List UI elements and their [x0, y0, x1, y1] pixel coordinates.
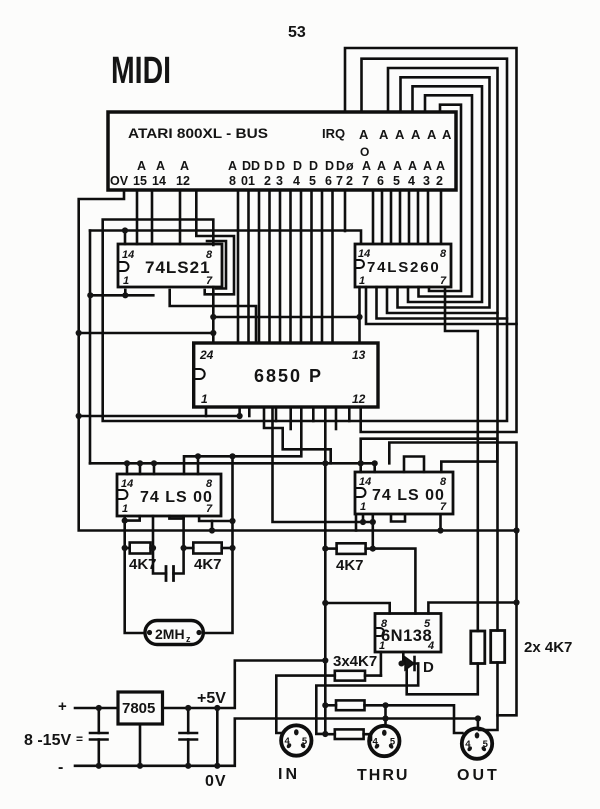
svg-text:12: 12 [176, 174, 190, 188]
svg-text:A: A [442, 127, 452, 142]
svg-text:4: 4 [373, 737, 379, 748]
svg-text:OUT: OUT [457, 767, 500, 784]
wire 74LS260 pin1 down to 6850 pin13 [358, 287, 361, 343]
wire loop A0 [362, 59, 508, 319]
DIN connector IN [281, 725, 311, 755]
svg-text:4: 4 [293, 174, 300, 188]
wire 6N138 pin8 left to serial line [325, 603, 389, 614]
svg-text:4: 4 [465, 739, 471, 750]
svg-text:6: 6 [325, 174, 332, 188]
wire: right vertical x507 continuation to left rail [103, 220, 507, 422]
bus bottom labels [110, 159, 445, 188]
junction J45 at (217.3,765.8) [214, 763, 220, 769]
svg-text:A: A [427, 127, 437, 142]
svg-text:8 -15V: 8 -15V [24, 732, 71, 749]
junction J39 at (98.8,708) [96, 705, 102, 711]
svg-text:74LS21: 74LS21 [145, 258, 211, 277]
svg-text:MIDI: MIDI [111, 50, 171, 92]
svg-text:14: 14 [121, 478, 133, 490]
junction J3 at (125.3,295.3) [122, 292, 128, 298]
junction J43 at (140,765.8) [137, 763, 143, 769]
junction J13 at (198,456.3) [195, 453, 201, 459]
wire loop A (4th) [398, 77, 490, 307]
resistor 4K7 (right LS00) [325, 543, 373, 574]
IC 74LS00 left [117, 474, 221, 516]
svg-text:4K7: 4K7 [194, 556, 222, 573]
svg-text:14: 14 [152, 174, 166, 188]
svg-text:A: A [180, 159, 189, 173]
wire 74LS260 pin7 down right side to 2x4K7 left [445, 287, 478, 631]
wire loop A (3rd) [387, 68, 498, 313]
junction J19 at (516.5,530.5) [513, 527, 519, 533]
wire 0V rail [75, 719, 478, 766]
junction J36 at (385.5,705.3) [382, 702, 388, 708]
junction J21 at (212,530.5) [209, 527, 215, 533]
wire LS00-right pin14 wrap to pin8 [361, 439, 498, 472]
junction J11 at (140,463.3) [137, 460, 143, 466]
wire loop A (5th) [408, 86, 482, 302]
wire D4 to 6850 [289, 190, 292, 343]
wire inner bracket right of 74LS21 [207, 241, 226, 289]
svg-text:2: 2 [346, 174, 353, 188]
svg-text:7805: 7805 [122, 700, 155, 717]
junction J40 at (188.2,708) [185, 705, 191, 711]
wire to OUT pin4 [386, 705, 463, 733]
wire phi2 clock to 6850 [331, 190, 334, 343]
junction J24 at (153,548) [150, 545, 156, 551]
wire 74LS21 bottom pin to 6850 top [170, 290, 256, 343]
DIN connector THRU [369, 726, 399, 756]
svg-text:A: A [411, 127, 421, 142]
svg-text:+5V: +5V [197, 690, 226, 707]
wire A4 to 74LS260 [399, 190, 402, 244]
regulator 7805 [118, 692, 163, 724]
wire 6850 bottom stub d [312, 407, 315, 421]
wire THRU top stub [384, 705, 387, 726]
junction J28 at (232.5,456.3) [229, 453, 235, 459]
svg-text:D: D [276, 159, 285, 173]
wire A14 to 74LS21 [151, 190, 154, 244]
junction J1 at (125,230.5) [122, 227, 128, 233]
junction J12 at (154,463.3) [151, 460, 157, 466]
svg-text:1: 1 [360, 501, 366, 513]
svg-text:4: 4 [285, 736, 291, 747]
wire horizontal y230 to 74LS260 pin14 [90, 231, 361, 244]
resistor 3x4K7 middle [325, 700, 385, 710]
wire LS00-left top stub [197, 456, 200, 474]
resistor 3x4K7 bottom [325, 729, 371, 740]
junction J18 at (372.8,522) [370, 519, 376, 525]
IC 6850P [194, 343, 378, 407]
svg-text:1: 1 [122, 503, 128, 515]
wire address stub to 74LS260 [427, 190, 430, 244]
junction J20 at (440.5,530.5) [437, 527, 443, 533]
wire plus rail [75, 707, 118, 710]
junction J17 at (363,522) [360, 519, 366, 525]
svg-text:A: A [362, 159, 371, 173]
svg-text:D: D [293, 159, 302, 173]
junction J22 at (124.7,520.6) [122, 518, 128, 524]
svg-text:74 LS 00: 74 LS 00 [372, 487, 445, 504]
wire 7805 gnd [139, 724, 142, 766]
junction J15 at (360.7,463.3) [358, 460, 364, 466]
svg-text:A: A [393, 159, 402, 173]
svg-text:A: A [156, 159, 165, 173]
junction J23 at (124.7,548) [122, 545, 128, 551]
svg-text:5: 5 [302, 736, 308, 747]
wire A6 to 74LS260 [381, 190, 384, 244]
svg-text:2x 4K7: 2x 4K7 [524, 639, 572, 656]
wire y295 row [90, 294, 153, 297]
svg-text:6: 6 [377, 174, 384, 188]
wire pin8 stub to 74LS260 [440, 190, 443, 244]
junction J32 at (516.5,602.5) [513, 599, 519, 605]
svg-text:5: 5 [309, 174, 316, 188]
capacitor output [187, 708, 190, 733]
svg-text:1: 1 [359, 275, 365, 287]
resistor 4K7 left [125, 516, 157, 633]
wire LS00-right middle bottom stubs [391, 515, 405, 522]
svg-text:A: A [137, 159, 146, 173]
wire bus pin to outer bracket around 74LS21 [196, 190, 234, 294]
junction J34 at (325.3,705.3) [322, 702, 328, 708]
svg-text:7: 7 [440, 275, 447, 287]
junction J33 at (325.3,660.5) [322, 657, 328, 663]
svg-text:15: 15 [133, 174, 147, 188]
wire A12 to 74LS21 [179, 190, 182, 244]
wire 6850 stub to y456 row [184, 407, 301, 474]
ATARI 800XL BUS box [108, 112, 456, 190]
capacitor between resistors [166, 567, 174, 581]
wire LS00-left pin7 to x232 [199, 516, 232, 521]
svg-text:12: 12 [352, 392, 366, 406]
svg-text:THRU: THRU [357, 767, 409, 784]
wire D2 to 6850 [268, 190, 271, 343]
svg-text:2: 2 [264, 174, 271, 188]
svg-text:1: 1 [123, 275, 129, 287]
wire A15 to 74LS21 [136, 190, 139, 244]
wire LS00-left top stub 3 [153, 463, 156, 474]
svg-text:D: D [309, 159, 318, 173]
wire 6850 bottom stub c [289, 407, 292, 429]
wire OUT top stub [477, 719, 480, 729]
svg-text:5: 5 [390, 737, 396, 748]
svg-text:A: A [228, 159, 237, 173]
wire x217 vertical [216, 708, 219, 766]
wire LS00-right top pin riser and y442 run to right vertical [389, 443, 516, 716]
wire 74LS21 pin14 stub [124, 231, 127, 245]
junction J30 at (372.8,548.6) [370, 546, 376, 552]
svg-text:DD: DD [242, 159, 260, 173]
IC 6N138 [375, 614, 441, 653]
junction J44 at (188.2,765.8) [185, 763, 191, 769]
svg-text:8: 8 [440, 248, 447, 260]
wire A5 to 74LS260 [390, 190, 393, 244]
wire D5 to 6850 [300, 190, 303, 343]
IC 74LS21 [118, 244, 222, 287]
wire LS00-right pin2 down through 4K7 to 6N138 [371, 515, 374, 549]
resistor 3x4K7 top [276, 652, 381, 733]
svg-text:z: z [186, 634, 191, 644]
junction J41 at (217.3,708) [214, 705, 220, 711]
capacitor input [98, 708, 101, 733]
wire: IRQ loop down to 6850 pin12 [361, 324, 517, 432]
svg-text:-: - [58, 759, 63, 776]
junction J38 at (477.9,718.5) [475, 715, 481, 721]
svg-text:ATARI 800XL - BUS: ATARI 800XL - BUS [128, 126, 268, 141]
svg-text:4: 4 [408, 174, 415, 188]
wire LS00-right top stubs [404, 457, 424, 473]
wire: right vertical x497.5 continuation to resistor 2x4K7 right [496, 313, 499, 631]
svg-text:7: 7 [362, 174, 369, 188]
svg-text:5: 5 [483, 739, 489, 750]
junction J9 at (359.5,317) [356, 314, 362, 320]
wire 6850 bottom stub a [248, 407, 251, 416]
wire diode right down and around (C bracket) [316, 664, 418, 734]
wire loop IRQ (outermost) [345, 48, 517, 324]
resistor 4K7 middle [184, 543, 233, 574]
wire y333 from left rail [79, 332, 214, 335]
svg-text:A: A [436, 159, 445, 173]
wire loop A (6th) [419, 95, 473, 296]
wire LS00-right pin7 stub to ground row [439, 515, 442, 531]
DIN connector OUT [462, 728, 492, 758]
wire A8 to 6850 [237, 190, 240, 343]
resistor 2x4K7 left [471, 631, 485, 664]
svg-text:53: 53 [288, 24, 306, 41]
svg-text:74 LS 00: 74 LS 00 [140, 489, 213, 506]
svg-text:D: D [423, 659, 434, 676]
junction J10 at (127,463.3) [124, 460, 130, 466]
wire D3 to 6850 [279, 190, 282, 343]
wire 6850 stub to right LS00 pins [273, 407, 373, 522]
svg-text:D: D [336, 159, 345, 173]
wire 74LS21 pin7 to 6850 pin24 [212, 287, 215, 343]
wire 6850 bottom stub e [335, 407, 338, 429]
svg-text:IRQ: IRQ [322, 126, 345, 141]
svg-text:2MH: 2MH [155, 626, 185, 642]
wire: 0V from bus down left side [79, 190, 517, 531]
wire loop A (innermost) [429, 105, 461, 291]
svg-text:3: 3 [276, 174, 283, 188]
junction J7 at (78.7,416) [76, 413, 82, 419]
wire D0 to 6850 [247, 190, 250, 343]
wire 6850 stub down long (serial data) [324, 407, 327, 734]
svg-text:A: A [395, 127, 405, 142]
wire: below resistor to OUT top [479, 663, 498, 731]
wire LS00-left bottom pin stub to ground row [211, 521, 214, 531]
svg-text:8: 8 [229, 174, 236, 188]
wire LS00-right bottom pin stubs [362, 515, 365, 522]
wire y317 junction row [213, 316, 359, 319]
svg-text:01: 01 [241, 174, 255, 188]
wire LS00-right pin14 stub [359, 463, 362, 472]
wire 74LS00 right pin1 stub [355, 515, 358, 531]
wire LS00-left top stub 1 [126, 463, 129, 474]
svg-text:=: = [76, 732, 83, 746]
wire x90 vertical down to LS00 row [89, 231, 92, 464]
svg-text:+: + [58, 698, 67, 715]
junction J5 at (213.3,333) [210, 330, 216, 336]
svg-text:0V: 0V [205, 773, 227, 790]
wire below 2x4K7 left to diode row [407, 664, 478, 695]
wire H1 y416 [79, 415, 240, 418]
svg-text:3: 3 [423, 174, 430, 188]
oscillator 2MHz [145, 621, 203, 645]
svg-text:24: 24 [199, 348, 214, 362]
svg-text:D: D [325, 159, 334, 173]
wire A7 to 74LS260 [372, 190, 375, 244]
wire long row y463 to 74LS00 right pin [90, 463, 375, 472]
svg-text:A: A [408, 159, 417, 173]
junction J4 at (213.3,317) [210, 314, 216, 320]
junction J25 at (183.6,548) [181, 545, 187, 551]
svg-text:14: 14 [122, 249, 134, 261]
wire 7805 out to +5V node [163, 661, 326, 709]
svg-text:1: 1 [201, 392, 208, 406]
wire staircase 6850 to LS00 left area [264, 407, 331, 463]
svg-text:O: O [360, 145, 369, 159]
junction J31 at (325.3,603) [322, 600, 328, 606]
svg-text:A: A [423, 159, 432, 173]
wire 6850 stub to H1 [238, 407, 241, 416]
wire phi2 stub [344, 190, 347, 231]
svg-text:4K7: 4K7 [336, 557, 364, 574]
junction J2 at (90.3,295.3) [87, 292, 93, 298]
junction J26 at (232.5,548) [229, 545, 235, 551]
wire A2 to 74LS260 [417, 190, 420, 244]
svg-text:6N138: 6N138 [381, 627, 432, 645]
svg-text:2: 2 [436, 174, 443, 188]
wire 6850 pin1 stub [205, 407, 208, 416]
junction J27 at (232.5,521) [229, 518, 235, 524]
svg-text:14: 14 [359, 476, 371, 488]
wire LS00 pin to R1 right / capacitor [153, 516, 166, 574]
resistor 2x4K7 right [491, 631, 505, 663]
wire A3 to 74LS260 [408, 190, 411, 244]
wire 6N138 pin5 right to x516 [428, 603, 516, 614]
junction J14 at (325.3,463.3) [322, 460, 328, 466]
junction J8 at (239.6,416) [237, 413, 243, 419]
junction J35 at (325.3,734) [322, 731, 328, 737]
diode D [399, 652, 435, 676]
svg-text:13: 13 [352, 348, 366, 362]
svg-text:IN: IN [278, 766, 300, 783]
junction J6 at (78.7,333) [76, 330, 82, 336]
junction J29 at (325.3,548.6) [322, 546, 328, 552]
wire LS00-left top stub 2 [139, 463, 142, 474]
svg-text:7: 7 [336, 174, 343, 188]
svg-text:A: A [359, 127, 369, 142]
svg-text:5: 5 [393, 174, 400, 188]
wire D1 to 6850 [258, 190, 261, 343]
svg-text:A: A [379, 127, 389, 142]
IC 74LS00 right [355, 472, 453, 514]
svg-text:3x4K7: 3x4K7 [333, 653, 377, 670]
wire 6850 bottom stub b [275, 407, 278, 421]
svg-text:6850 P: 6850 P [254, 366, 323, 386]
junction J42 at (98.8,765.8) [96, 763, 102, 769]
svg-text:D: D [264, 159, 273, 173]
svg-text:ø: ø [346, 159, 354, 173]
wire R2 right down to 2MHz right [203, 456, 232, 633]
wire 74LS21 pin1 stub [124, 290, 127, 295]
svg-text:74LS260: 74LS260 [367, 259, 440, 276]
svg-text:A: A [377, 159, 386, 173]
wire D7 to 6850 [321, 190, 324, 343]
wire D6 to 6850 [310, 190, 313, 343]
junction J16 at (374.7,463.3) [372, 460, 378, 466]
IC 74LS260 [355, 244, 451, 287]
wire 6850 bottom stub f [348, 407, 351, 421]
svg-text:OV: OV [110, 174, 129, 188]
junction J37 at (385.5,718.5) [382, 715, 388, 721]
